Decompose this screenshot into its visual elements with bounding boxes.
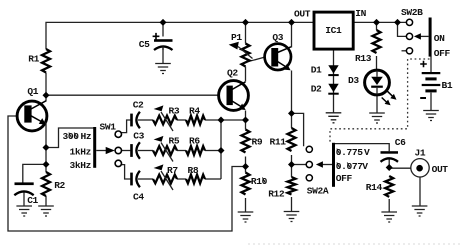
svg-text:R11: R11 bbox=[270, 137, 287, 148]
svg-text:V: V bbox=[362, 161, 368, 172]
wire R2 to ground bbox=[45, 196, 47, 206]
label 0.775 V bbox=[336, 147, 370, 158]
ground D1 D2 bbox=[326, 113, 342, 123]
wire C5 to ground bbox=[162, 46, 164, 64]
wire R13 to D3 bbox=[376, 56, 378, 70]
node row2 riser bbox=[218, 147, 225, 154]
wire J1 to ground bbox=[419, 177, 421, 206]
svg-text:IC1: IC1 bbox=[325, 25, 342, 36]
label C1 bbox=[27, 195, 38, 206]
svg-text:OFF: OFF bbox=[434, 48, 451, 59]
svg-text:D2: D2 bbox=[311, 83, 322, 94]
ground D3 bbox=[369, 113, 385, 123]
label R6 bbox=[189, 136, 200, 147]
connector J1 bbox=[411, 159, 429, 177]
wire SW1 mid throw to C3 bbox=[122, 150, 131, 152]
wire Q1 base feedback loop bbox=[8, 116, 246, 231]
wire SW2B off stub bbox=[402, 50, 407, 52]
wire battery top bbox=[430, 57, 432, 73]
label OFF B bbox=[434, 48, 451, 59]
resistor R1 bbox=[42, 49, 50, 73]
svg-text:SW2B: SW2B bbox=[401, 7, 423, 18]
trimmer R3 bbox=[153, 105, 177, 131]
switch SW2A contacts bbox=[306, 146, 312, 181]
wire top supply rail left bbox=[46, 22, 315, 49]
ground R14 bbox=[381, 212, 397, 222]
diode D2 bbox=[328, 84, 338, 95]
svg-text:P1: P1 bbox=[231, 32, 242, 43]
label R11 bbox=[270, 137, 287, 148]
op-amp U1 / regulator IC1 bbox=[314, 12, 353, 49]
wire Q2 emitter to node bbox=[245, 111, 247, 130]
resistor R12 bbox=[288, 177, 296, 195]
wire R12 to ground bbox=[291, 197, 293, 212]
svg-text:Q1: Q1 bbox=[27, 86, 38, 97]
label R4 bbox=[189, 106, 200, 117]
svg-text:SW1: SW1 bbox=[100, 121, 117, 132]
resistor R14 bbox=[385, 176, 393, 197]
wire SW2B pole L bbox=[398, 22, 407, 36]
wire row1 R4 to Q2 emitter node bbox=[205, 119, 246, 121]
svg-text:R5: R5 bbox=[169, 136, 180, 147]
label R12 bbox=[268, 188, 285, 199]
wire C6 to node bbox=[388, 158, 390, 168]
label C4 bbox=[133, 191, 144, 202]
ground R12 bbox=[284, 212, 300, 222]
wire IC1 right pin to SW2B bbox=[353, 21, 407, 23]
svg-text:R4: R4 bbox=[189, 106, 200, 117]
label ON bbox=[434, 33, 445, 44]
node row1 riser bbox=[218, 117, 225, 124]
ground B1 bbox=[423, 111, 439, 121]
node R11 top bbox=[288, 110, 295, 117]
node R13 rail bbox=[373, 19, 380, 26]
label C2 bbox=[133, 100, 144, 111]
svg-text:C3: C3 bbox=[133, 131, 144, 142]
ground C1 bbox=[16, 206, 32, 216]
diode D1 bbox=[328, 65, 338, 76]
svg-text:B1: B1 bbox=[442, 80, 453, 91]
node Q3 rail bbox=[288, 19, 295, 26]
label C3 bbox=[133, 131, 144, 142]
resistor R8 bbox=[186, 175, 205, 184]
wire ganged switch dashed link bbox=[330, 59, 430, 143]
wire row2 C3 to R5 bbox=[138, 150, 153, 152]
wire R11 top to SW2A top throw bbox=[292, 113, 304, 146]
label R8 bbox=[188, 165, 199, 176]
trimmer R7 bbox=[153, 164, 177, 190]
transistor Q2 bbox=[219, 81, 249, 111]
LED D3 bbox=[365, 70, 397, 105]
label Q1 bbox=[27, 86, 38, 97]
label J1 bbox=[415, 148, 426, 159]
wire Q3 collector riser bbox=[291, 22, 293, 47]
capacitor C4 bbox=[130, 171, 140, 187]
label C6 bbox=[395, 137, 406, 148]
label SW1 bbox=[100, 121, 117, 132]
label R1 bbox=[28, 54, 39, 65]
node Q1 emitter SW1 bbox=[43, 144, 50, 151]
label 300Hz bbox=[63, 131, 92, 142]
switch SW1 throw contacts bbox=[115, 131, 121, 167]
wire D3 to ground bbox=[376, 95, 378, 113]
label 1kHz bbox=[70, 146, 92, 157]
svg-text:R7: R7 bbox=[167, 165, 178, 176]
wire R1 to Q1 collector bbox=[45, 73, 47, 102]
svg-text:C5: C5 bbox=[139, 39, 150, 50]
switch SW2A bar bbox=[316, 143, 335, 187]
transistor Q1 bbox=[17, 101, 47, 131]
capacitor C2 bbox=[130, 112, 140, 128]
svg-text:D3: D3 bbox=[348, 75, 359, 86]
node Q1 collector bbox=[43, 92, 50, 99]
potentiometer P1 bbox=[229, 42, 253, 67]
resistor R10 bbox=[242, 173, 250, 195]
wire Q1 collector to Q2 base bbox=[46, 94, 219, 96]
svg-text:Q3: Q3 bbox=[272, 32, 283, 43]
wire Q3 emitter to R11 bbox=[291, 71, 293, 129]
wire R9 R10 node bbox=[245, 157, 247, 173]
wire R13 top bbox=[376, 22, 378, 30]
svg-text:0.775: 0.775 bbox=[336, 147, 363, 158]
wire node to SW2A pole bbox=[292, 164, 307, 166]
svg-text:R9: R9 bbox=[252, 137, 263, 148]
svg-text:C2: C2 bbox=[133, 100, 144, 111]
transistor Q3 bbox=[265, 44, 291, 71]
wire R10 to ground bbox=[245, 198, 247, 212]
svg-text:C1: C1 bbox=[27, 195, 38, 206]
wire C1 branch bbox=[23, 164, 46, 182]
wire SW1 bottom throw to row3 bbox=[121, 165, 130, 179]
resistor R6 bbox=[186, 146, 205, 155]
svg-text:Hz: Hz bbox=[81, 131, 92, 142]
trimmer R5 bbox=[153, 136, 177, 162]
node C5 rail bbox=[160, 19, 167, 26]
svg-text:OUT: OUT bbox=[432, 164, 449, 175]
label Q3 bbox=[272, 32, 283, 43]
faint scan artifact bottom bbox=[248, 243, 460, 245]
ground C5 bbox=[155, 64, 171, 74]
svg-text:C6: C6 bbox=[395, 137, 406, 148]
ground R2 bbox=[38, 206, 54, 216]
node R9 R10 feedback bbox=[242, 163, 249, 170]
svg-text:Q2: Q2 bbox=[227, 68, 238, 79]
node C6 R14 bbox=[386, 164, 393, 171]
svg-text:ON: ON bbox=[434, 33, 445, 44]
wire row3 C4 to R7 bbox=[138, 178, 153, 180]
svg-text:R6: R6 bbox=[189, 136, 200, 147]
wire C5 drop bbox=[162, 22, 164, 36]
battery B1 bbox=[420, 61, 440, 98]
label 3kHz bbox=[70, 160, 92, 171]
label P1 bbox=[231, 32, 242, 43]
label R2 bbox=[54, 180, 65, 191]
svg-text:R2: R2 bbox=[54, 180, 65, 191]
resistor R4 bbox=[186, 116, 205, 125]
svg-text:OUT: OUT bbox=[294, 9, 311, 20]
wire R11 R12 column bbox=[291, 155, 293, 177]
wire R14 to ground bbox=[388, 199, 390, 212]
label IN pin bbox=[355, 8, 366, 19]
label IC1 bbox=[325, 25, 342, 36]
wire P1 to Q2 collector bbox=[245, 67, 247, 82]
label D3 bbox=[348, 75, 359, 86]
node R11 R12 bbox=[288, 161, 295, 168]
resistor R9 bbox=[242, 130, 250, 153]
svg-text:R10: R10 bbox=[251, 176, 268, 187]
node C1 tap bbox=[43, 161, 50, 168]
switch SW2B bar bbox=[414, 18, 432, 57]
label R14 bbox=[366, 182, 383, 193]
resistor R2 bbox=[42, 172, 50, 196]
wire IC1 bottom to diodes bbox=[333, 49, 335, 113]
label D1 bbox=[311, 64, 322, 75]
node SW2B rail bbox=[394, 19, 401, 26]
wire Q1 emitter column bbox=[45, 126, 47, 172]
wire SW1 top throw to row1 bbox=[121, 120, 130, 133]
label selector frame bbox=[58, 127, 60, 129]
label R9 bbox=[252, 137, 263, 148]
svg-text:D1: D1 bbox=[311, 64, 322, 75]
label OUT jack bbox=[432, 164, 449, 175]
resistor R11 bbox=[288, 128, 296, 151]
node P1 rail bbox=[242, 19, 249, 26]
svg-text:1kHz: 1kHz bbox=[70, 146, 92, 157]
svg-text:V: V bbox=[364, 147, 370, 158]
label OFF A bbox=[336, 173, 353, 184]
svg-text:R12: R12 bbox=[268, 188, 285, 199]
ground R10 bbox=[238, 212, 254, 222]
svg-text:3kHz: 3kHz bbox=[70, 160, 92, 171]
svg-text:IN: IN bbox=[355, 8, 366, 19]
svg-text:R1: R1 bbox=[28, 54, 39, 65]
ground J1 bbox=[412, 206, 428, 216]
switch SW1 bus bar bbox=[93, 127, 115, 168]
wire battery to ground bbox=[430, 93, 432, 111]
wire SW2A bar to C6 bbox=[334, 144, 390, 152]
label OUT pin bbox=[294, 9, 311, 20]
label C5 bbox=[139, 39, 150, 50]
label R3 bbox=[169, 106, 180, 117]
wire C1 to ground bbox=[23, 191, 25, 206]
wire rows right riser bbox=[220, 120, 222, 179]
label R13 bbox=[355, 53, 372, 64]
label SW2A bbox=[307, 185, 329, 196]
capacitor C6 bbox=[381, 151, 399, 162]
svg-text:R13: R13 bbox=[355, 53, 372, 64]
node Q2 emitter bbox=[242, 117, 249, 124]
label R7 bbox=[167, 165, 178, 176]
label B1 bbox=[442, 80, 453, 91]
svg-text:SW2A: SW2A bbox=[307, 185, 329, 196]
svg-text:C4: C4 bbox=[133, 191, 144, 202]
wire row2 R6 to junction bbox=[205, 150, 221, 152]
wire row3 R8 to riser bbox=[205, 178, 221, 180]
label R10 bbox=[251, 176, 268, 187]
switch SW2B contacts bbox=[406, 19, 412, 54]
wire emitter to SW1 bus bbox=[46, 128, 96, 148]
capacitor C5 bbox=[153, 33, 173, 50]
resistor R13 bbox=[373, 30, 381, 53]
label D2 bbox=[311, 83, 322, 94]
svg-text:R3: R3 bbox=[169, 106, 180, 117]
wire P1 top bbox=[245, 22, 247, 43]
wire Q3 base diagonal bbox=[246, 57, 265, 62]
label R5 bbox=[169, 136, 180, 147]
svg-text:J1: J1 bbox=[415, 148, 426, 159]
svg-text:OFF: OFF bbox=[336, 173, 353, 184]
label Q2 bbox=[227, 68, 238, 79]
wire row2 R5 to R6 bbox=[177, 150, 186, 152]
wire row3 R7 to R8 bbox=[177, 178, 186, 180]
svg-text:R14: R14 bbox=[366, 182, 383, 193]
wire node to J1 bbox=[389, 167, 411, 169]
capacitor C3 bbox=[130, 142, 140, 158]
svg-text:R8: R8 bbox=[188, 165, 199, 176]
capacitor C1 bbox=[14, 182, 33, 195]
label 0.077 V bbox=[336, 161, 368, 172]
label SW2B bbox=[401, 7, 423, 18]
wire row1 R3 to R4 bbox=[177, 119, 186, 121]
wire row1 C2 to R3 bbox=[138, 119, 153, 121]
